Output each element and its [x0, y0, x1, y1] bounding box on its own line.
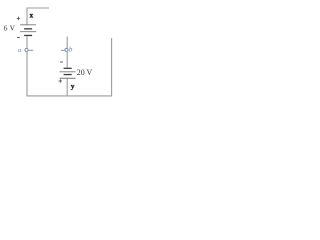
- battery B2 plus sign: [59, 79, 62, 82]
- wire middle vertical mid: [66, 52, 68, 68]
- battery B2 20V symbol: [60, 68, 76, 78]
- svg-text:6 V: 6 V: [4, 24, 16, 33]
- wire top horizontal: [27, 7, 50, 9]
- terminal b circle: [65, 48, 68, 51]
- wire left vertical upper: [26, 8, 28, 25]
- battery B1 minus sign: [17, 36, 20, 38]
- terminal a circle: [25, 48, 28, 51]
- wire right vertical: [111, 38, 113, 96]
- wire left vertical mid: [26, 36, 28, 49]
- battery B1 plus sign: [17, 17, 20, 20]
- wire middle vertical upper: [66, 37, 68, 49]
- wire bottom horizontal: [27, 95, 113, 97]
- battery B2 minus sign: [60, 61, 63, 63]
- terminal a stub: [29, 49, 34, 51]
- svg-text:20 V: 20 V: [77, 68, 93, 77]
- battery B1 6V symbol: [20, 25, 36, 36]
- svg-text:x: x: [30, 10, 34, 19]
- svg-text:b: b: [69, 45, 73, 53]
- svg-text:y: y: [71, 82, 75, 91]
- terminal b stub: [61, 49, 64, 51]
- wire middle vertical lower: [66, 79, 68, 97]
- wire left vertical lower: [26, 52, 28, 97]
